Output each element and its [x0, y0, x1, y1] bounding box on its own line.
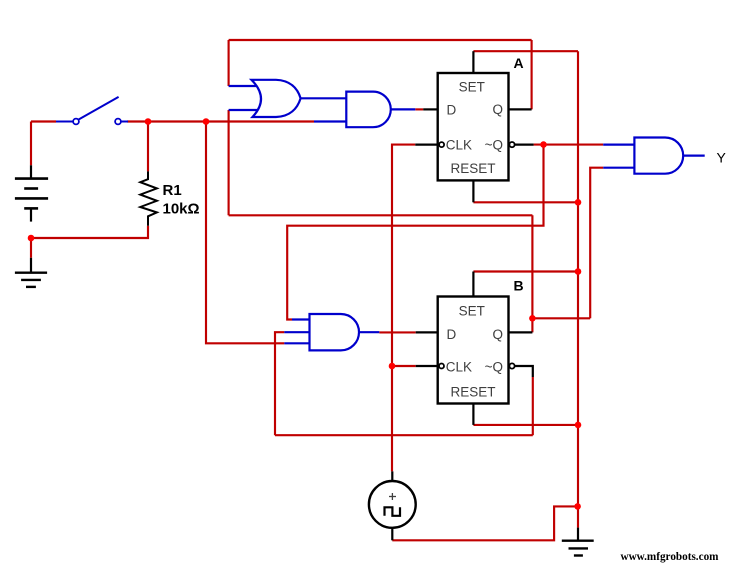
svg-text:D: D	[447, 327, 457, 342]
wire notQ of A down	[287, 145, 543, 320]
wire resistor top	[147, 122, 149, 172]
svg-text:Y: Y	[717, 150, 727, 166]
svg-text:CLK: CLK	[446, 360, 472, 375]
flip-flop A	[415, 51, 533, 202]
svg-text:SET: SET	[459, 304, 485, 319]
wire RESET of A to ground line	[473, 201, 578, 203]
junction switch-resistor	[145, 118, 152, 125]
or-gate U1	[229, 80, 347, 117]
wire AND B output to D of B	[379, 331, 415, 333]
wire top horizontal feedback	[229, 39, 532, 41]
wire horizontal y215	[229, 214, 533, 216]
wire AND B middle input	[275, 332, 284, 435]
and-gate U4 output Y	[603, 138, 705, 174]
wire clock source bottom to ground	[392, 506, 577, 540]
junction clock ground	[574, 503, 581, 510]
junction main-x206	[203, 118, 210, 125]
wire SET of B to ground line	[473, 270, 578, 272]
svg-text:A: A	[514, 55, 524, 71]
wire Q of B feedback vertical	[531, 215, 533, 332]
svg-text:RESET: RESET	[450, 384, 495, 399]
wire Q of A feedback vertical	[531, 40, 533, 109]
svg-text:R1: R1	[163, 182, 182, 199]
junction battery bottom	[28, 235, 35, 242]
svg-text:~Q: ~Q	[485, 360, 503, 375]
junction RESET B ground line	[575, 422, 582, 429]
junction RESET A ground line	[575, 199, 582, 206]
junction clock CLK B	[389, 363, 396, 370]
and-gate U2	[314, 92, 415, 128]
svg-text:CLK: CLK	[446, 138, 472, 153]
wire main horizontal to AND gate A	[148, 120, 314, 122]
and-gate U3	[284, 314, 379, 350]
wire OR top input feedback vertical	[228, 40, 230, 86]
wire Q of B to Y gate horizontal	[532, 317, 590, 319]
wire clock to CLK of B	[392, 365, 416, 367]
wire resistor bottom	[31, 226, 148, 238]
battery V1	[15, 165, 48, 221]
wire battery top to switch	[31, 120, 56, 122]
wire battery bottom to ground	[30, 238, 32, 258]
junction SET B ground line	[575, 268, 582, 275]
svg-text:Q: Q	[492, 327, 503, 342]
wire notQ of A to Y gate top input	[534, 144, 604, 146]
wire notQ of B horizontal y435	[275, 434, 533, 436]
wire AND A output to D of A	[415, 108, 423, 110]
svg-text:Q: Q	[492, 102, 503, 117]
wire ground vertical x578	[577, 51, 579, 527]
wire Y gate bottom input vertical	[590, 168, 603, 319]
wire notQ of B vertical	[532, 377, 534, 435]
switch S1	[56, 97, 128, 125]
svg-text:RESET: RESET	[450, 161, 495, 176]
svg-text:10kΩ: 10kΩ	[163, 200, 200, 217]
junction notQ of A	[540, 141, 547, 148]
flip-flop B	[416, 272, 533, 425]
svg-text:www.mfgrobots.com: www.mfgrobots.com	[621, 551, 720, 563]
svg-text:D: D	[447, 103, 457, 118]
ground (battery)	[15, 258, 47, 287]
ground (right)	[562, 528, 594, 556]
svg-text:B: B	[514, 278, 524, 294]
wire switch to junction	[127, 120, 149, 122]
junction Q of B feedback	[529, 315, 536, 322]
svg-text:~Q: ~Q	[485, 137, 503, 152]
clock source V2	[369, 471, 416, 540]
resistor R1	[140, 171, 157, 225]
svg-text:SET: SET	[459, 80, 485, 95]
wire vertical x206 down to AND gate B bottom input	[206, 122, 284, 344]
wire SET of A to ground line	[473, 50, 578, 52]
wire RESET of B to ground line	[473, 424, 578, 426]
wire OR bottom input vertical	[228, 110, 230, 215]
wire battery top vertical	[30, 122, 32, 166]
wire clock vertical	[392, 145, 415, 472]
